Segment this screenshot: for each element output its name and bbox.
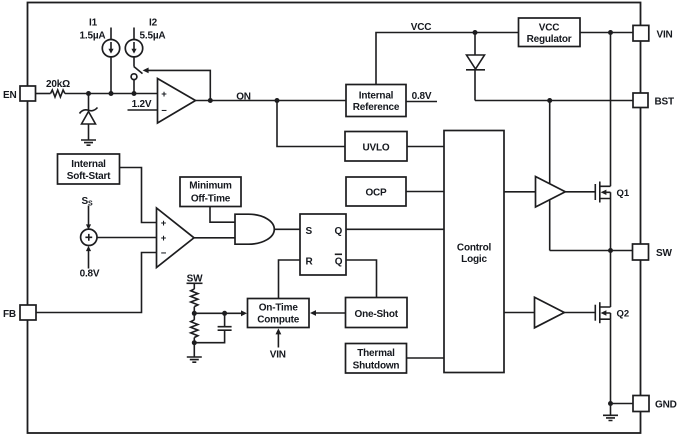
- pin EN: [20, 86, 36, 101]
- pin GND: [633, 396, 649, 412]
- svg-text:BST: BST: [655, 97, 674, 108]
- node SW: [608, 248, 613, 253]
- wire VIN rail to Q1 drain: [610, 33, 612, 187]
- svg-text:−: −: [161, 105, 167, 116]
- wire diode to BST line: [474, 70, 476, 101]
- wire VCC to diode: [474, 33, 476, 56]
- svg-text:5.5µA: 5.5µA: [140, 31, 166, 42]
- svg-text:0.8V: 0.8V: [80, 269, 100, 280]
- wire UVLO to control logic: [407, 146, 444, 148]
- wire OCP to control logic: [406, 191, 444, 193]
- wire FB to error amp: [36, 253, 157, 313]
- resistor R1 20kOhm: [51, 90, 65, 97]
- node I1: [109, 91, 114, 96]
- svg-text:0.8V: 0.8V: [412, 91, 432, 102]
- svg-text:Logic: Logic: [461, 254, 487, 265]
- svg-text:VIN: VIN: [270, 350, 286, 361]
- capacitor C1: [218, 327, 232, 331]
- wire control logic to driver2: [504, 312, 535, 314]
- ground (power): [603, 415, 618, 420]
- wire min off-time to AND gate: [210, 207, 235, 223]
- svg-text:−: −: [161, 248, 167, 259]
- wire one-shot to on-time compute: [315, 312, 345, 314]
- svg-text:Minimum: Minimum: [189, 181, 232, 192]
- wire I2 to switch: [133, 57, 135, 67]
- wire switch control feedback: [148, 70, 211, 100]
- node divider bottom: [192, 340, 197, 345]
- box internal soft-start: [58, 154, 120, 184]
- svg-text:VIN: VIN: [657, 30, 673, 41]
- wire SW to resistor: [193, 284, 195, 290]
- latch U2: [300, 214, 346, 275]
- wire summer to error amp: [97, 237, 157, 239]
- wire tap to capacitor: [224, 313, 226, 326]
- wire 1.2V to comparator minus: [128, 109, 158, 111]
- wire Q2 source to GND: [610, 319, 612, 403]
- wire Q2 drain to SW: [610, 251, 612, 308]
- wire zener to ground: [88, 124, 90, 140]
- svg-text:Soft-Start: Soft-Start: [67, 171, 111, 182]
- wire latch R from on-time compute: [279, 260, 301, 299]
- svg-text:Off-Time: Off-Time: [191, 194, 231, 205]
- svg-text:ON: ON: [236, 92, 251, 103]
- svg-text:I2: I2: [149, 18, 158, 29]
- pin SW: [633, 244, 649, 260]
- svg-text:R: R: [306, 256, 314, 267]
- wire AND to latch S: [274, 228, 300, 230]
- svg-text:FB: FB: [3, 309, 16, 320]
- wire latch Q to control logic: [346, 228, 444, 230]
- svg-text:EN: EN: [3, 90, 17, 101]
- resistor R3 bottom: [191, 320, 198, 338]
- svg-text:Internal: Internal: [71, 159, 106, 170]
- box on-time compute: [248, 299, 310, 328]
- node divider tap: [192, 311, 197, 316]
- node VIN rail: [608, 30, 613, 35]
- wire 0.8V arrow into summer: [88, 251, 90, 269]
- node GND: [608, 401, 613, 406]
- wire BST line: [475, 100, 633, 102]
- wire zener branch: [88, 94, 90, 110]
- node cap tap: [222, 311, 227, 316]
- wire error amp to AND gate: [194, 237, 235, 239]
- pin VIN: [633, 25, 649, 41]
- svg-text:Shutdown: Shutdown: [353, 361, 400, 372]
- svg-text:Regulator: Regulator: [527, 34, 572, 45]
- box one-shot: [346, 298, 408, 328]
- svg-text:SW: SW: [656, 248, 672, 259]
- box OCP: [346, 177, 406, 206]
- wire tap to on-time compute: [194, 312, 241, 314]
- svg-text:+: +: [161, 233, 167, 244]
- wire Ss arrow into summer: [88, 206, 90, 225]
- svg-text:1.2V: 1.2V: [132, 99, 152, 110]
- pin FB: [20, 305, 36, 320]
- wire thermal shutdown to control logic: [407, 357, 445, 359]
- switch S1 arm: [134, 67, 143, 74]
- diode D2: [467, 55, 485, 69]
- node BST driver: [547, 98, 552, 103]
- svg-text:Reference: Reference: [353, 102, 400, 113]
- node I2 switch: [132, 91, 137, 96]
- svg-text:Q: Q: [335, 256, 343, 267]
- wire I1 to node: [110, 57, 112, 94]
- wire internal reference to VCC: [376, 33, 519, 85]
- AND gate: [235, 214, 274, 244]
- box UVLO: [345, 132, 407, 162]
- wire to tap: [193, 307, 195, 320]
- current source I1: [110, 28, 112, 40]
- box internal reference: [346, 85, 406, 117]
- wire switch to node: [133, 80, 135, 94]
- switch S1 contact: [131, 74, 137, 80]
- error amp: [157, 208, 195, 268]
- zener diode D1: [80, 108, 98, 114]
- svg-text:+: +: [161, 218, 167, 229]
- transistor Q2: [594, 305, 596, 321]
- box thermal shutdown: [346, 344, 407, 374]
- svg-text:I1: I1: [89, 18, 98, 29]
- node ON branch: [275, 98, 280, 103]
- svg-text:On-Time: On-Time: [259, 303, 299, 314]
- svg-text:OCP: OCP: [365, 188, 387, 199]
- transistor Q1: [594, 184, 596, 200]
- driver2: [535, 297, 565, 328]
- svg-text:One-Shot: One-Shot: [354, 309, 398, 320]
- wire Q1 source to SW: [610, 199, 612, 251]
- comparator U1: [158, 79, 196, 124]
- svg-text:Q2: Q2: [617, 309, 630, 320]
- wire driver1 to Q1 gate: [565, 191, 595, 193]
- node VCC diode: [473, 30, 478, 35]
- svg-text:Thermal: Thermal: [357, 348, 395, 359]
- wire control logic to driver1: [504, 191, 536, 193]
- svg-text:S: S: [306, 226, 313, 237]
- wire GND node to pin: [611, 403, 634, 405]
- wire comparator output ON: [196, 100, 347, 102]
- wire BST to driver1 and driver1 to SW: [549, 101, 551, 251]
- wire driver2 to Q2 gate: [564, 312, 595, 314]
- wire SW line: [550, 250, 633, 252]
- svg-text:VCC: VCC: [411, 22, 432, 33]
- svg-text:+: +: [161, 89, 167, 100]
- ground (zener): [81, 140, 96, 145]
- box VCC regulator: [519, 18, 581, 47]
- svg-text:20kΩ: 20kΩ: [46, 79, 70, 90]
- wire VIN arrow to on-time compute: [277, 334, 279, 348]
- summing junction: [81, 229, 97, 245]
- wire 0.8V output: [406, 101, 437, 103]
- resistor R2 top: [191, 289, 198, 307]
- wire VCC regulator to VIN: [580, 32, 633, 34]
- svg-text:Control: Control: [457, 243, 492, 254]
- wire GND node to ground: [610, 404, 612, 416]
- box minimum off-time: [180, 177, 241, 207]
- svg-text:VCC: VCC: [539, 23, 560, 34]
- svg-text:Compute: Compute: [257, 315, 300, 326]
- svg-text:1.5µA: 1.5µA: [80, 31, 106, 42]
- svg-text:Internal: Internal: [359, 91, 394, 102]
- wire capacitor to divider bottom: [194, 331, 224, 343]
- wire ON to UVLO: [277, 101, 345, 147]
- wire soft-start to error amp: [120, 168, 157, 223]
- svg-text:Q1: Q1: [617, 188, 630, 199]
- wire to ground: [193, 338, 195, 357]
- wire EN pin to resistor: [36, 93, 51, 95]
- driver1: [536, 177, 566, 208]
- current source I2: [133, 28, 135, 40]
- svg-text:GND: GND: [655, 399, 677, 410]
- wire latch Qbar to one-shot: [346, 260, 377, 298]
- ground (divider): [187, 357, 202, 362]
- node comparator output: [208, 98, 213, 103]
- svg-text:Q: Q: [335, 226, 343, 237]
- svg-text:UVLO: UVLO: [363, 143, 390, 154]
- box control logic: [444, 131, 504, 373]
- wire resistor to comparator: [65, 93, 158, 95]
- node zener tap: [86, 91, 91, 96]
- pin BST: [633, 93, 648, 108]
